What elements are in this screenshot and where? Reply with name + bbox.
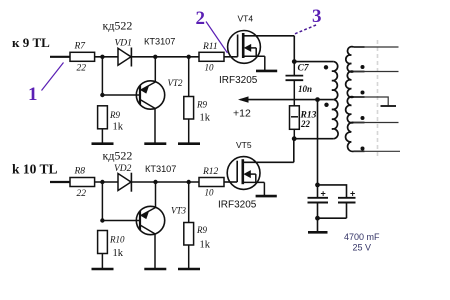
wire VT3 collector down <box>154 234 156 269</box>
node drain-bottom junction dot <box>292 136 297 141</box>
wire R8 to VD2 <box>95 181 118 183</box>
node filter-cap bottom junction dot <box>315 216 320 221</box>
capacitor C9 electrolytic (right 4700mF) <box>338 189 356 219</box>
svg-text:VD2: VD2 <box>114 164 132 174</box>
wire input top <box>50 56 70 58</box>
node drain-top junction dot <box>292 59 297 64</box>
svg-text:k 10 TL: k 10 TL <box>12 162 58 177</box>
svg-text:R7: R7 <box>74 42 87 52</box>
ground VT2 collector <box>144 142 166 145</box>
svg-text:22: 22 <box>77 64 87 74</box>
wire drain-top node to primary top <box>294 61 334 63</box>
ground filter caps <box>308 231 328 234</box>
node A junction dot <box>100 55 104 59</box>
ground VT5 source <box>256 195 277 198</box>
node base VT2 junction dot <box>100 93 104 97</box>
node base VT3 junction dot <box>100 218 104 222</box>
secondary tap wire 5 <box>354 150 365 152</box>
wire VT5 drain up to node drain-bottom <box>293 139 295 163</box>
svg-text:10: 10 <box>205 63 215 73</box>
transformer secondary section 4 <box>346 122 354 151</box>
ground VT3 collector <box>144 268 166 271</box>
svg-text:R9: R9 <box>109 110 120 120</box>
transformer secondary section 1 <box>346 47 354 72</box>
resistor R9 (right bottom) <box>184 223 211 251</box>
wire R7 to VD1 <box>95 56 118 58</box>
node R9-bottom-top junction dot <box>187 180 191 184</box>
svg-text:22: 22 <box>300 119 311 129</box>
node emitter-bottom junction dot <box>153 180 157 184</box>
wire base of VT2 <box>102 94 140 96</box>
wire VD1 to R11 <box>131 56 199 58</box>
capacitor C8 electrolytic (left 4700mF) <box>308 185 329 218</box>
svg-text:+: + <box>321 189 326 199</box>
transformer T1 primary upper half winding <box>332 62 338 100</box>
svg-text:R9: R9 <box>196 100 207 110</box>
svg-text:R9: R9 <box>196 225 207 235</box>
wire R9 right bottom <box>188 119 190 143</box>
svg-text:3: 3 <box>312 6 322 27</box>
wire cap top branch right <box>318 185 347 197</box>
secondary tap wire 2 <box>354 71 365 73</box>
ground secondary tap <box>381 105 397 107</box>
wire R13 bottom to node drain-bottom <box>293 129 295 138</box>
secondary tap wire 3 (to ground) <box>354 96 365 98</box>
svg-text:1k: 1k <box>200 113 211 124</box>
resistor R8 <box>70 167 95 200</box>
wire VD2 to R12 <box>131 181 199 183</box>
svg-text:VT5: VT5 <box>236 140 252 150</box>
resistor R9 (left) <box>98 106 124 133</box>
svg-text:+12: +12 <box>233 108 251 120</box>
svg-text:VT3: VT3 <box>171 206 187 216</box>
svg-text:1k: 1k <box>113 122 124 133</box>
annotation 2 <box>196 8 228 53</box>
svg-text:10n: 10n <box>298 84 312 94</box>
primary phase dot upper <box>324 65 328 69</box>
svg-text:VD1: VD1 <box>115 39 132 49</box>
svg-text:кд522: кд522 <box>103 148 133 162</box>
wire cap bottom branch <box>318 217 347 219</box>
svg-text:IRF3205: IRF3205 <box>218 200 257 211</box>
diode VD1 <box>115 39 132 67</box>
ground R9 left <box>92 142 114 145</box>
transformer core (dashed) <box>377 40 379 157</box>
resistor R12 <box>199 167 224 198</box>
wire VT4 source down <box>264 56 266 70</box>
svg-text:к 9 TL: к 9 TL <box>12 35 50 50</box>
svg-text:R11: R11 <box>202 42 218 52</box>
secondary phase dot 4 <box>361 147 365 151</box>
ground VT4 source <box>256 70 277 73</box>
ground R9 bottom <box>178 268 200 271</box>
svg-text:2: 2 <box>196 8 206 29</box>
wire node B down to base node <box>101 182 103 221</box>
resistor R10 <box>98 231 125 260</box>
svg-text:1k: 1k <box>113 248 124 259</box>
wire base of VT3 <box>102 220 140 222</box>
diode VD2 <box>114 164 132 192</box>
node B junction dot <box>100 180 104 184</box>
wire R9 bottom bottom <box>188 245 190 269</box>
resistor R13 <box>290 106 317 130</box>
annotation 1 <box>28 63 64 106</box>
resistor R11 <box>199 42 224 73</box>
wire R12 to VT5 gate <box>224 181 237 183</box>
transistor VT2 (KT3107 PNP) <box>136 78 183 109</box>
primary phase dot lower <box>324 103 328 107</box>
svg-text:1k: 1k <box>200 240 211 251</box>
capacitor C7 <box>286 62 313 106</box>
svg-text:+: + <box>350 189 355 199</box>
svg-text:VT4: VT4 <box>238 14 254 24</box>
wire R9 right top <box>188 57 190 97</box>
svg-text:VT2: VT2 <box>168 78 184 88</box>
transformer T1 primary lower half winding <box>332 100 338 139</box>
transistor VT5 (IRF3205 MOSFET) <box>218 140 294 211</box>
secondary phase dot 3 <box>361 116 365 120</box>
node filter-cap top junction dot <box>315 183 320 188</box>
ground R9 right <box>178 142 200 145</box>
transistor VT3 (KT3107 PNP) <box>136 206 186 235</box>
wire VT2 collector down <box>154 108 156 143</box>
svg-text:25 V: 25 V <box>353 243 372 253</box>
svg-text:КТ3107: КТ3107 <box>145 164 176 174</box>
wire R11 to VT4 gate <box>224 56 238 58</box>
wire VT3 emitter up <box>155 182 157 208</box>
node R9-right-top junction dot <box>187 55 191 59</box>
svg-text:кд522: кд522 <box>103 18 133 32</box>
node center-tap junction dot <box>315 97 320 102</box>
resistor R7 <box>70 42 95 74</box>
svg-text:10: 10 <box>205 188 215 198</box>
ground R10 <box>92 268 114 271</box>
resistor R9 (right top) <box>184 97 211 124</box>
secondary tap wire 4 <box>354 122 365 124</box>
svg-text:R12: R12 <box>202 167 219 177</box>
svg-text:4700 mF: 4700 mF <box>344 232 380 242</box>
transistor VT4 (IRF3205 MOSFET) <box>219 14 294 87</box>
secondary tap wire 1 <box>354 46 365 48</box>
wire center tap down to capacitors <box>317 100 319 185</box>
svg-text:КТ3107: КТ3107 <box>144 36 175 46</box>
wire VT4 drain down to node 3 <box>293 36 295 62</box>
wire VT2 emitter up <box>154 57 156 83</box>
wire cap bottom to ground <box>317 218 319 231</box>
svg-text:1: 1 <box>28 84 38 105</box>
wire R10 bottom <box>101 254 103 269</box>
transformer secondary section 2 <box>346 71 354 97</box>
wire R9 bottom top <box>188 182 190 223</box>
wire VT5 source down <box>263 182 265 195</box>
svg-text:IRF3205: IRF3205 <box>219 75 258 86</box>
svg-text:R8: R8 <box>74 167 86 177</box>
wire R9 left bottom <box>101 129 103 143</box>
wire node A down to base node <box>101 57 103 95</box>
wire input bottom <box>50 181 70 183</box>
node emitter-top junction dot <box>153 55 157 59</box>
secondary phase dot 2 <box>361 91 365 95</box>
svg-text:C7: C7 <box>298 64 310 74</box>
annotation 3 <box>295 6 322 34</box>
svg-text:22: 22 <box>77 189 87 199</box>
wire primary bottom to drain-bottom node <box>294 138 334 140</box>
transformer secondary section 3 <box>346 97 354 123</box>
+12 feed line with arrow <box>233 96 334 119</box>
svg-text:R10: R10 <box>109 235 125 245</box>
secondary phase dot 1 <box>361 65 365 69</box>
